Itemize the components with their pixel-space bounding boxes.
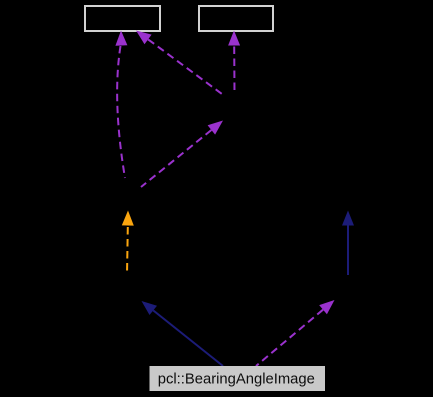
svg-text:pcl::BearingAngleImage: pcl::BearingAngleImage bbox=[158, 371, 315, 387]
